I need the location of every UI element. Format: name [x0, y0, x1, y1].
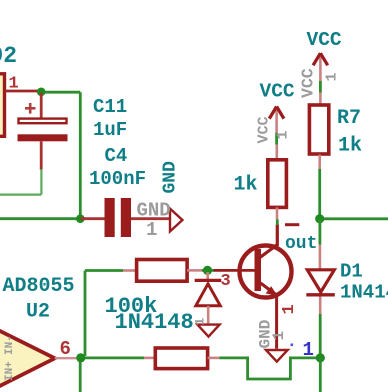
- wire down to D1: [318, 219, 321, 245]
- junction node at pin1: [37, 88, 46, 97]
- capacitor C4: [81, 198, 170, 237]
- wire vertical x=80 down: [79, 92, 82, 219]
- resistor 100k: [123, 260, 202, 282]
- wire jog under GND to right junction: [220, 358, 317, 379]
- svg-text:1N4148: 1N4148: [340, 282, 388, 304]
- svg-text:6: 6: [60, 338, 71, 360]
- svg-text:C4: C4: [105, 145, 128, 167]
- junction node at op-amp output: [76, 353, 85, 362]
- svg-text:1: 1: [303, 339, 314, 361]
- wire output to bottom resistor: [77, 356, 144, 359]
- VCC symbol (right): [313, 53, 328, 81]
- capacitor C11 (polarized): [18, 93, 68, 171]
- svg-text:92: 92: [0, 43, 17, 69]
- wire junction to transistor base: [202, 269, 214, 272]
- junction node at y=218.7: [76, 214, 85, 223]
- junction node at base: [203, 266, 212, 275]
- resistor (bottom, horizontal): [144, 348, 220, 369]
- svg-text:out: out: [285, 234, 317, 254]
- svg-text:VCC: VCC: [307, 29, 342, 51]
- svg-text:1: 1: [9, 75, 19, 94]
- svg-text:VCC: VCC: [260, 81, 295, 103]
- diode 1N4148 (vertical, cathode up): [195, 272, 222, 323]
- wire R7 down to junction: [318, 169, 321, 219]
- wire from junction to x=80: [41, 91, 80, 94]
- svg-text:1k: 1k: [234, 174, 258, 197]
- svg-text:VCC: VCC: [256, 116, 273, 143]
- IC U? body (voltage regulator, partial at left edge): [0, 74, 5, 137]
- svg-text:3: 3: [221, 272, 231, 291]
- svg-text:C11: C11: [93, 96, 127, 118]
- svg-text:IN-: IN-: [4, 335, 16, 355]
- label tick for net out: [285, 223, 299, 226]
- resistor 1k (vertical): [268, 145, 287, 220]
- svg-text:1: 1: [193, 318, 208, 326]
- svg-text:1: 1: [280, 304, 299, 314]
- wire VCC to 1k: [275, 133, 278, 145]
- transistor Q (NPN): [214, 225, 292, 349]
- diode D1 (vertical, cathode down): [306, 245, 335, 315]
- svg-text:D1: D1: [340, 261, 363, 283]
- wire VCC to R7: [319, 81, 322, 93]
- svg-text:VCC: VCC: [299, 68, 318, 98]
- svg-text:GND: GND: [161, 161, 181, 194]
- GND symbol at C4: [170, 209, 182, 232]
- svg-text:R7: R7: [337, 107, 361, 130]
- junction node right top: [315, 214, 324, 223]
- wire from C11 bottom to left edge: [0, 169, 41, 195]
- svg-text:100nF: 100nF: [89, 168, 146, 190]
- svg-text:1: 1: [324, 72, 341, 81]
- svg-text:U2: U2: [26, 301, 50, 324]
- label origin mark (blue): [291, 344, 294, 347]
- GND symbol below diode: [197, 325, 219, 337]
- op-amp U2: [0, 311, 55, 392]
- svg-text:1uF: 1uF: [93, 119, 127, 141]
- svg-text:IN+: IN+: [4, 361, 16, 381]
- svg-text:1: 1: [270, 331, 288, 341]
- svg-text:AD8055: AD8055: [3, 275, 75, 298]
- IC pin 1 wire: [5, 90, 41, 93]
- VCC symbol (left): [269, 107, 284, 134]
- wire horizontal y=218.7 left: [0, 217, 80, 220]
- svg-text:1: 1: [275, 130, 292, 139]
- wire y=218.8 to right edge: [320, 217, 388, 220]
- feedback wire up from output: [85, 271, 123, 357]
- resistor R7 (vertical): [309, 92, 328, 170]
- wire junction down to bottom edge: [319, 358, 322, 392]
- wire D1 down to junction: [319, 314, 322, 358]
- junction node right bottom: [316, 353, 325, 362]
- svg-text:1N4148: 1N4148: [115, 310, 194, 335]
- wire collector to resistor: [276, 219, 279, 224]
- svg-text:1k: 1k: [338, 135, 362, 158]
- op-amp output pin: [55, 357, 77, 359]
- wire output down to bottom edge: [79, 358, 82, 392]
- svg-text:1: 1: [146, 219, 157, 241]
- GND symbol below emitter: [266, 350, 288, 362]
